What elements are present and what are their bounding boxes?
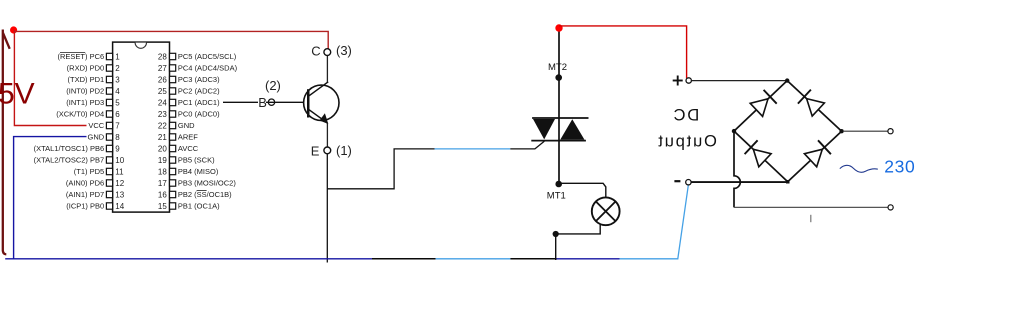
U1 pin 26 PC3 (ADC3): [158, 75, 220, 84]
svg-text:PC5 (ADC5/SCL): PC5 (ADC5/SCL): [178, 52, 237, 61]
svg-text:27: 27: [158, 64, 167, 73]
U1 pin 10 (XTAL2/TOSC2) PB7: [34, 156, 125, 165]
U1 pin 18 PB4 (MISO): [158, 167, 219, 176]
svg-text:Output: Output: [657, 132, 717, 150]
svg-text:20: 20: [158, 144, 167, 153]
svg-text:(RESET) PC6: (RESET) PC6: [58, 52, 105, 61]
svg-text:28: 28: [158, 52, 167, 61]
U1 pin 7 VCC: [88, 121, 120, 130]
svg-text:26: 26: [158, 75, 167, 84]
svg-text:(INT0) PD2: (INT0) PD2: [66, 87, 104, 96]
svg-text:(AIN0) PD6: (AIN0) PD6: [66, 179, 104, 188]
wire bottom rail light blue 1: [436, 258, 511, 260]
svg-text:PC4 (ADC4/SDA): PC4 (ADC4/SDA): [178, 64, 238, 73]
node bridge top vertex dot: [785, 78, 789, 82]
svg-text:(3): (3): [336, 43, 352, 58]
wire emitter branch to triac gate (black): [327, 149, 434, 189]
U1 pin 24 PC1 (ADC1): [158, 98, 220, 107]
svg-text:230: 230: [884, 156, 915, 176]
overline SS pin16: [197, 190, 207, 192]
transistor Q1: [304, 82, 339, 124]
U1 pin 8 GND: [88, 133, 121, 142]
node triac top junction dot (red): [555, 24, 562, 31]
wire triac MT2 to bridge plus (red): [559, 26, 687, 78]
svg-text:23: 23: [158, 110, 167, 119]
label B: [258, 95, 267, 110]
node B terminal circle: [268, 99, 274, 105]
node E terminal circle: [324, 147, 331, 154]
svg-text:5V: 5V: [0, 78, 35, 111]
svg-text:B: B: [258, 95, 267, 110]
wire bridge left vertex down with hop: [734, 131, 740, 207]
label C: [311, 44, 320, 59]
svg-text:PB4 (MISO): PB4 (MISO): [178, 167, 219, 176]
label (3): [336, 43, 352, 58]
U1 pin 2 (RXD) PD0: [67, 64, 121, 73]
node plus terminal circle: [686, 78, 691, 83]
wire bottom rail black 2: [510, 258, 556, 260]
wire gate segment (light blue): [435, 148, 511, 150]
U1 pin 4 (INT0) PD2: [66, 87, 120, 96]
wire lamp bottom to junction (black): [556, 224, 600, 234]
svg-text:15: 15: [158, 202, 167, 211]
wire GND pin8 to bottom rail (navy): [14, 137, 87, 259]
node right lower terminal circle: [888, 205, 893, 210]
U1 pin 21 AREF: [158, 133, 198, 142]
wire PC1 pin24 to base (black): [223, 101, 307, 103]
svg-text:12: 12: [115, 179, 124, 188]
wire bottom rail navy 2: [557, 258, 620, 260]
U1 pin 9 (XTAL1/TOSC1) PB6: [34, 144, 121, 153]
triac D1: [531, 30, 588, 184]
label DC Output (mirrored): [657, 107, 717, 151]
label (1): [336, 143, 352, 158]
lamp L1: [592, 197, 620, 225]
node right upper terminal circle: [888, 129, 893, 134]
svg-text:5: 5: [115, 98, 120, 107]
svg-text:24: 24: [158, 98, 167, 107]
svg-text:17: 17: [158, 179, 167, 188]
U1 pin 16 PB2 (SS/OC1B): [158, 190, 232, 199]
IC U1 ATmega8 DIP-28 body: [113, 42, 170, 212]
svg-text:9: 9: [115, 144, 120, 153]
wire bridge right vertex to right terminal: [844, 130, 888, 132]
node 5V junction dot: [10, 26, 17, 33]
svg-text:AVCC: AVCC: [178, 144, 199, 153]
wire emitter down to bottom rail: [326, 154, 328, 263]
svg-text:16: 16: [158, 190, 167, 199]
svg-text:(RXD) PD0: (RXD) PD0: [67, 64, 105, 73]
wire bottom rail black 1: [372, 258, 436, 260]
tick mark below bridge: [810, 215, 812, 222]
U1 pin 11 (T1) PD5: [74, 167, 124, 176]
svg-text:(XTAL2/TOSC2) PB7: (XTAL2/TOSC2) PB7: [34, 156, 105, 165]
svg-text:1: 1: [115, 52, 120, 61]
svg-text:C: C: [311, 44, 320, 59]
svg-text:6: 6: [115, 110, 120, 119]
diode D2 top-left: [750, 90, 777, 117]
U1 pin 23 PC0 (ADC0): [158, 110, 220, 119]
wire MT1 to lamp (black): [559, 183, 606, 197]
svg-text:(1): (1): [336, 143, 352, 158]
node MT1 dot: [555, 181, 562, 188]
svg-text:(INT1) PD3: (INT1) PD3: [66, 98, 104, 107]
svg-text:7: 7: [115, 121, 120, 130]
U1 pin 20 AVCC: [158, 144, 199, 153]
U1 pin 3 (TXD) PD1: [68, 75, 121, 84]
svg-text:(AIN1) PD7: (AIN1) PD7: [66, 190, 104, 199]
label (2): [265, 78, 281, 93]
node minus terminal circle: [686, 180, 691, 185]
svg-text:PC2 (ADC2): PC2 (ADC2): [178, 87, 220, 96]
label MT1: [547, 190, 566, 201]
svg-text:GND: GND: [178, 121, 195, 130]
diode D3 top-right: [798, 90, 825, 117]
svg-text:(ICP1) PB0: (ICP1) PB0: [66, 202, 104, 211]
svg-text:VCC: VCC: [88, 121, 104, 130]
diode D4 bottom-left: [745, 140, 772, 167]
svg-text:25: 25: [158, 87, 167, 96]
svg-text:2: 2: [115, 64, 120, 73]
U1 pin 1 (RESET) PC6: [58, 52, 121, 61]
svg-text:3: 3: [115, 75, 120, 84]
node bridge right vertex dot: [839, 129, 843, 133]
svg-text:4: 4: [115, 87, 120, 96]
squiggle tilde (navy): [840, 165, 878, 172]
svg-text:PC0 (ADC0): PC0 (ADC0): [178, 110, 220, 119]
wire plus to bridge top vertex: [691, 80, 787, 82]
svg-text:19: 19: [158, 156, 167, 165]
node lamp return junction dot: [553, 231, 559, 237]
node bridge left vertex dot: [732, 129, 736, 133]
U1 pin 17 PB3 (MOSI/OC2): [158, 179, 236, 188]
label 5V: [0, 78, 35, 111]
U1 pin 13 (AIN1) PD7: [66, 190, 125, 199]
U1 pin 19 PB5 (SCK): [158, 156, 215, 165]
wire AC lower to right terminal: [734, 206, 888, 208]
5V supply arrow: [3, 30, 10, 255]
svg-text:11: 11: [115, 167, 124, 176]
svg-text:10: 10: [115, 156, 124, 165]
node bridge bottom vertex dot: [786, 180, 790, 184]
bridge rectifier arms: [734, 81, 842, 182]
label minus: [674, 180, 680, 182]
wire 5V top rail to collector (red): [14, 31, 328, 48]
svg-text:PB3 (MOSI/OC2): PB3 (MOSI/OC2): [178, 179, 236, 188]
svg-text:PB1 (OC1A): PB1 (OC1A): [178, 202, 220, 211]
wire collector to C (black): [326, 56, 328, 82]
overline RESET pin1: [60, 51, 85, 53]
label plus: [673, 76, 683, 86]
wire junction down to bottom rail: [555, 234, 557, 260]
wire bottom rail navy left: [5, 258, 372, 260]
U1 pin 27 PC4 (ADC4/SDA): [158, 64, 238, 73]
svg-text:MT1: MT1: [547, 190, 566, 201]
svg-text:MT2: MT2: [548, 62, 567, 73]
svg-text:(TXD) PD1: (TXD) PD1: [68, 75, 105, 84]
wire gate segment to triac (black): [510, 141, 544, 149]
svg-text:(XTAL1/TOSC1) PB6: (XTAL1/TOSC1) PB6: [34, 144, 105, 153]
svg-text:GND: GND: [88, 133, 105, 142]
U1 pin 14 (ICP1) PB0: [66, 202, 124, 211]
U1 pin 5 (INT1) PD3: [66, 98, 120, 107]
svg-text:(T1) PD5: (T1) PD5: [74, 167, 104, 176]
U1 pin 6 (XCK/T0) PD4: [56, 110, 120, 119]
node C terminal circle: [324, 49, 331, 56]
svg-text:AREF: AREF: [178, 133, 198, 142]
U1 pin 12 (AIN0) PD6: [66, 179, 125, 188]
svg-text:18: 18: [158, 167, 167, 176]
wire 5V to VCC pin7 (red): [14, 30, 86, 126]
svg-text:PC1 (ADC1): PC1 (ADC1): [178, 98, 220, 107]
U1 pin 25 PC2 (ADC2): [158, 87, 220, 96]
svg-text:PB2 (SS/OC1B): PB2 (SS/OC1B): [178, 190, 232, 199]
svg-text:(XCK/T0) PD4: (XCK/T0) PD4: [56, 110, 104, 119]
wire minus to bridge bottom vertex: [691, 181, 788, 183]
node MT2 dot: [555, 74, 562, 81]
wire emitter to E (black): [326, 123, 328, 147]
label MT2: [548, 62, 567, 73]
wire bottom rail light blue to bridge minus: [620, 185, 689, 258]
svg-text:DC: DC: [672, 107, 699, 125]
diode D5 bottom-right: [804, 140, 831, 167]
svg-text:(2): (2): [265, 78, 281, 93]
label E: [311, 143, 320, 158]
label 230 (blue): [884, 156, 915, 176]
svg-text:PB5 (SCK): PB5 (SCK): [178, 156, 215, 165]
U1 pin 22 GND: [158, 121, 195, 130]
U1 pin 15 PB1 (OC1A): [158, 202, 220, 211]
svg-text:13: 13: [115, 190, 124, 199]
svg-text:PC3 (ADC3): PC3 (ADC3): [178, 75, 220, 84]
svg-text:8: 8: [115, 133, 120, 142]
svg-text:22: 22: [158, 121, 167, 130]
U1 pin 28 PC5 (ADC5/SCL): [158, 52, 237, 61]
svg-text:21: 21: [158, 133, 167, 142]
svg-text:E: E: [311, 143, 320, 158]
svg-text:14: 14: [115, 202, 124, 211]
